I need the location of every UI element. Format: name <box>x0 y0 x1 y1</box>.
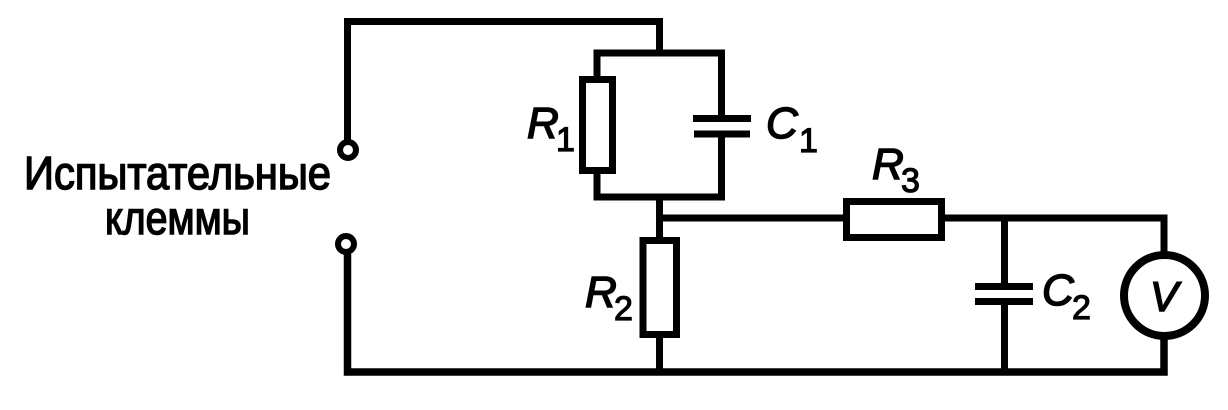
resistor R2 <box>643 241 677 335</box>
svg-text:R: R <box>585 268 617 317</box>
wire: top-left bus from top terminal up and right to R1/C1 block <box>348 22 660 141</box>
wire: R2 bottom lead <box>656 334 663 375</box>
capacitor C1 <box>693 119 751 135</box>
resistor R3 <box>847 202 942 238</box>
wire: middle bus to voltmeter with corner down <box>656 218 1164 254</box>
capacitor C2 <box>975 287 1033 302</box>
node B: bottom bus of R1||C1 parallel block <box>594 194 726 201</box>
svg-text:R: R <box>872 140 904 189</box>
svg-text:1: 1 <box>556 121 575 159</box>
resistor R1 <box>583 80 613 171</box>
wire: C2 bottom lead <box>1001 301 1008 375</box>
wire: C1 top lead <box>718 53 725 115</box>
svg-text:3: 3 <box>901 162 920 200</box>
svg-text:V: V <box>1150 273 1182 320</box>
wire: C1 bottom lead <box>718 137 725 200</box>
svg-text:2: 2 <box>614 290 633 328</box>
wire: R1 bottom lead <box>594 170 601 200</box>
terminal: lower test terminal <box>338 236 354 252</box>
wire: bottom bus from lower terminal to voltmeter <box>348 254 1165 372</box>
wire: C2 top lead from middle bus <box>1001 218 1008 287</box>
terminal: upper test terminal <box>340 142 356 158</box>
wire: R1 top lead <box>594 53 601 80</box>
svg-text:C: C <box>1042 266 1075 315</box>
svg-text:клеммы: клеммы <box>105 192 250 244</box>
svg-text:R: R <box>527 99 559 148</box>
wire: drop from block bottom to R2 <box>656 197 663 241</box>
svg-text:1: 1 <box>799 122 818 160</box>
svg-text:2: 2 <box>1072 289 1091 327</box>
voltmeter V <box>1124 255 1205 336</box>
svg-text:C: C <box>766 99 799 148</box>
node A: top bus of R1||C1 parallel block <box>594 50 726 57</box>
